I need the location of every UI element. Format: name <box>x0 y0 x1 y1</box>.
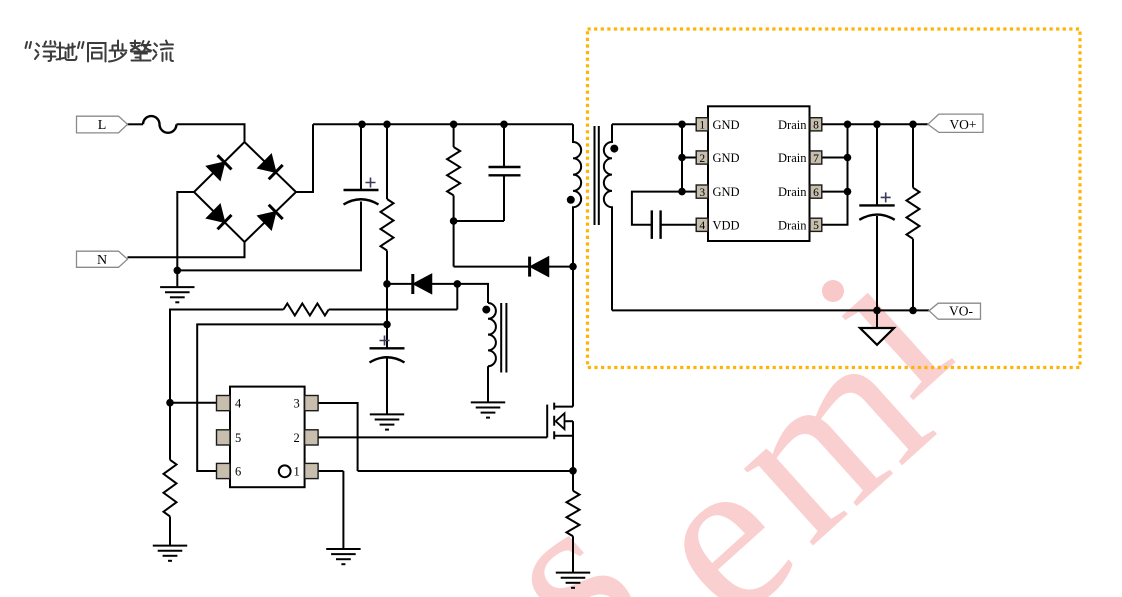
svg-text:1: 1 <box>294 465 300 479</box>
wire: bridge left vertex to ground junction <box>177 192 194 270</box>
U2 pin number labels <box>235 397 300 479</box>
transformer secondary winding <box>604 124 612 310</box>
node junction <box>873 307 881 315</box>
svg-text:GND: GND <box>713 151 740 165</box>
wire: pin3 route to source junction <box>358 470 573 472</box>
ground (bridge DC-) <box>176 270 178 287</box>
wire: pin3 loop to VDD cap <box>632 192 682 225</box>
wire: VO- rail <box>612 309 929 311</box>
transistor Q1 MOSFET gate wire from pin2 <box>318 436 547 438</box>
capacitor C5 output electrolytic <box>876 124 878 205</box>
diode D6 (aux rectifier) <box>413 274 432 294</box>
diode D5 clamp <box>530 257 549 277</box>
op-amp U1 synchronous rectifier 8-pin box <box>708 106 810 241</box>
svg-text:4: 4 <box>699 220 705 232</box>
wire: pin7 stub <box>822 157 848 159</box>
watermark text <box>458 462 674 597</box>
fuse F1 <box>143 116 177 133</box>
wire: pin4 of U2 <box>170 402 217 404</box>
ground (source resistor) <box>556 573 590 588</box>
svg-text:3: 3 <box>294 397 300 411</box>
U1 pad pin8 <box>810 118 822 131</box>
U1 pad pin3 <box>696 185 708 198</box>
svg-text:Drain: Drain <box>778 218 807 232</box>
svg-text:2: 2 <box>294 431 300 445</box>
wire: GND bus left of U1 <box>681 124 683 191</box>
wire: N terminal to bridge bottom <box>128 242 245 257</box>
node junction <box>569 467 577 475</box>
Q1 source stub <box>554 435 573 437</box>
node junction <box>500 121 508 129</box>
node junction <box>844 154 852 162</box>
diode D1 (bridge top-left) <box>206 155 231 180</box>
bridge rectifier BR1 diamond <box>194 142 296 242</box>
svg-text:4: 4 <box>235 397 242 411</box>
terminal VO- flag <box>929 303 981 319</box>
capacitor C1 electrolytic bulk <box>360 124 362 190</box>
U1 pad pin4 <box>696 218 708 231</box>
terminal L flag <box>77 116 128 133</box>
svg-text:VO+: VO+ <box>949 117 976 132</box>
svg-text:6: 6 <box>813 187 819 199</box>
capacitor C2 snubber <box>503 124 505 167</box>
node junction <box>383 280 391 288</box>
op-amp U2 controller 6-pin box <box>230 387 305 488</box>
wire: ground junction to bulk cap bottom <box>177 262 361 270</box>
wire: output ground stub <box>876 310 878 328</box>
wire: pin6 of U2 to mid cap junction <box>197 324 387 471</box>
plus sign of C5 <box>881 192 891 202</box>
transformer core <box>595 126 599 225</box>
node junction <box>383 321 391 329</box>
ground (aux winding) <box>471 402 505 417</box>
Q1 gate plate <box>546 405 548 438</box>
wire: fuse to bridge top <box>177 124 245 142</box>
U2 pad pin6 <box>217 463 231 478</box>
node junction <box>450 217 458 225</box>
wire: pin1 of U2 to ground <box>318 470 343 472</box>
wire: top rail <box>313 123 573 125</box>
plus sign of C1 <box>366 178 376 188</box>
U2 pad pin3 <box>305 396 319 411</box>
ground (left resistor) <box>169 516 171 545</box>
node junction <box>844 121 852 129</box>
node junction <box>166 399 174 407</box>
svg-text:VDD: VDD <box>713 218 740 232</box>
svg-text:Drain: Drain <box>778 151 807 165</box>
resistor R2 snubber <box>453 124 455 147</box>
wire: pin8 to VO+ <box>822 123 928 125</box>
node junction <box>383 121 391 129</box>
wire: snubber bottom <box>454 221 504 267</box>
wire: L terminal to fuse <box>128 123 144 125</box>
svg-text:Drain: Drain <box>778 185 807 199</box>
svg-text:8: 8 <box>813 120 819 132</box>
U2 pad pin2 <box>305 430 319 445</box>
wire: clamp diode to drain line <box>549 266 574 268</box>
wire: diode junction down to feedback line <box>456 284 458 310</box>
resistor R5 (left bias) <box>169 403 171 460</box>
aux winding W3 <box>488 303 496 366</box>
polarity dot primary <box>567 196 575 204</box>
U1 pin numbers <box>699 120 819 233</box>
node junction <box>909 121 917 129</box>
U1 pad pin5 <box>810 218 822 231</box>
wire: pin3 of U2 route <box>318 403 358 471</box>
wire: snubber to clamp diode <box>454 266 530 268</box>
svg-text:GND: GND <box>713 185 740 199</box>
node junction <box>678 154 686 162</box>
resistor R6 output load <box>912 124 914 187</box>
polarity dot aux winding <box>482 306 490 314</box>
svg-text:VO-: VO- <box>949 304 973 319</box>
node junction <box>450 121 458 129</box>
node junction <box>569 263 577 271</box>
U1 pin name labels <box>713 118 740 233</box>
U1 pad pin2 <box>696 151 708 164</box>
svg-text:Drain: Drain <box>778 118 807 132</box>
capacitor C3 (mid, electrolytic) <box>386 324 388 348</box>
capacitor C4 (VDD decoupling) <box>652 210 661 239</box>
svg-text:L: L <box>98 118 107 133</box>
resistor R1 (across bulk cap) <box>386 124 388 199</box>
resistor R3 feedback (horizontal) <box>329 309 458 311</box>
svg-text:N: N <box>97 253 107 268</box>
polarity dot secondary <box>610 145 618 153</box>
diode D2 (bridge top-right) <box>258 154 283 179</box>
orange dotted frame (secondary section) <box>588 29 1081 368</box>
wire: bridge right vertex to top rail <box>296 124 313 192</box>
title text "浮地"同步整流 <box>26 41 174 62</box>
node junction <box>454 280 462 288</box>
Q1 drain stub <box>554 406 573 408</box>
svg-text:2: 2 <box>699 153 705 165</box>
diode D4 (bridge bottom-right) <box>258 205 283 230</box>
ground (pin1 of U2) <box>342 471 344 549</box>
svg-text:6: 6 <box>235 465 241 479</box>
wire: R1 bottom junction to diode D6 <box>387 283 413 285</box>
node junction <box>909 307 917 315</box>
U2 pin1 indicator circle <box>279 465 291 477</box>
resistor R4 source sense <box>572 471 574 491</box>
node junction <box>678 188 686 196</box>
output ground triangle <box>860 328 894 345</box>
wire: C4 to pin4 <box>661 224 697 226</box>
ground (mid cap) <box>386 357 388 414</box>
Q1 source down to junction <box>572 421 574 471</box>
U1 pad pin1 <box>696 118 708 131</box>
node junction <box>873 121 881 129</box>
Q1 body arrow <box>556 413 565 429</box>
U1 pad pin7 <box>810 151 822 164</box>
Q1 body wire <box>564 420 573 422</box>
wire: Drain bus right of U1 <box>822 124 848 225</box>
Q1 channel dashes <box>553 403 555 440</box>
watermark dot <box>822 280 844 302</box>
transformer primary winding <box>573 124 581 406</box>
terminal VO+ flag <box>928 114 983 132</box>
node junction <box>678 121 686 129</box>
svg-text:GND: GND <box>713 118 740 132</box>
U2 pad pin4 <box>217 396 231 411</box>
svg-text:5: 5 <box>235 431 241 445</box>
terminal N flag <box>77 251 128 267</box>
plus sign of C3 <box>380 336 390 346</box>
wire: pin3 stub <box>682 191 696 193</box>
svg-text:1: 1 <box>699 120 705 132</box>
svg-text:3: 3 <box>699 187 705 199</box>
U2 pad pin5 <box>217 430 231 445</box>
U2 pad pin1 <box>305 463 319 478</box>
U1 pad pin6 <box>810 185 822 198</box>
wire: D6 to aux winding top <box>432 284 489 303</box>
node junction <box>844 188 852 196</box>
aux core lines <box>501 303 506 373</box>
node junction <box>174 267 182 275</box>
svg-text:7: 7 <box>813 153 819 165</box>
diode D3 (bridge bottom-left) <box>206 204 231 229</box>
wire: pin6 stub <box>822 191 848 193</box>
svg-text:5: 5 <box>813 220 819 232</box>
wire: pin2 stub <box>682 157 696 159</box>
wire: secondary top to pin1 of U1 <box>612 123 696 125</box>
node junction <box>358 121 366 129</box>
